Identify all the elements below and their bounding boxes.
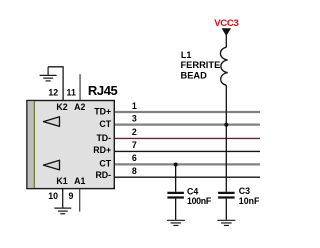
- connector RJ45 body: [27, 101, 114, 189]
- capacitor C3: [218, 193, 235, 198]
- wire VCC3 to L1: [225, 34, 227, 47]
- svg-text:L1: L1: [181, 50, 192, 60]
- wire C4 to ground: [175, 199, 177, 220]
- wire TD- net pin2: [114, 137, 260, 139]
- svg-text:TD+: TD+: [94, 106, 111, 116]
- wire L1 to CT and C3: [225, 85, 227, 192]
- junction on CT pin6: [174, 163, 178, 167]
- wire pin10 to ground: [62, 189, 64, 208]
- junction on CT pin3: [224, 123, 228, 127]
- svg-text:C3: C3: [239, 186, 250, 196]
- svg-text:10nF: 10nF: [239, 196, 260, 206]
- ground (C3): [217, 220, 235, 225]
- wire TD+ net pin1: [114, 111, 260, 113]
- wire RD+ net pin7: [114, 150, 260, 152]
- svg-text:RD+: RD+: [93, 145, 111, 155]
- svg-text:11: 11: [67, 88, 76, 98]
- connector slot olive edge: [33, 101, 35, 188]
- svg-text:K2: K2: [56, 102, 67, 112]
- ground (top-left): [40, 67, 57, 81]
- LED D1 triangle: [43, 160, 59, 170]
- svg-text:BEAD: BEAD: [181, 70, 208, 80]
- svg-text:A2: A2: [74, 102, 85, 112]
- svg-text:1: 1: [132, 101, 137, 111]
- wire RD- net pin8: [114, 176, 260, 178]
- wire C3 to ground: [225, 199, 227, 220]
- svg-text:K1: K1: [56, 176, 67, 186]
- wire CT net pin6: [114, 163, 260, 165]
- svg-text:RD-: RD-: [95, 170, 111, 180]
- wire CT net pin3: [114, 123, 260, 125]
- svg-text:FERRITE: FERRITE: [181, 60, 221, 70]
- capacitor C4: [167, 193, 184, 198]
- wire CT pin6 to C4: [175, 164, 177, 191]
- ground (bottom, pin10): [54, 208, 71, 214]
- svg-text:10: 10: [48, 191, 58, 201]
- svg-text:RJ45: RJ45: [88, 83, 118, 98]
- svg-text:7: 7: [132, 140, 137, 150]
- connector jack slot bar: [28, 101, 34, 188]
- ground (C4): [167, 220, 185, 225]
- svg-text:8: 8: [132, 166, 137, 176]
- svg-text:9: 9: [68, 191, 73, 201]
- wire pin9 stub: [79, 189, 81, 212]
- svg-text:CT: CT: [99, 158, 111, 168]
- svg-text:VCC3: VCC3: [214, 18, 238, 29]
- wire pin12 to ground: [48, 67, 63, 101]
- svg-text:100nF: 100nF: [187, 196, 212, 206]
- svg-text:A1: A1: [74, 176, 85, 186]
- svg-text:6: 6: [132, 153, 137, 163]
- svg-text:3: 3: [132, 113, 137, 123]
- power VCC3 symbol: [222, 29, 230, 36]
- svg-text:12: 12: [48, 88, 58, 98]
- svg-text:CT: CT: [99, 119, 111, 129]
- inductor L1 ferrite bead: [220, 47, 227, 85]
- svg-text:2: 2: [132, 127, 137, 137]
- wire pin11 stub: [79, 74, 81, 100]
- LED D2 triangle: [43, 117, 59, 127]
- svg-text:TD-: TD-: [96, 133, 111, 143]
